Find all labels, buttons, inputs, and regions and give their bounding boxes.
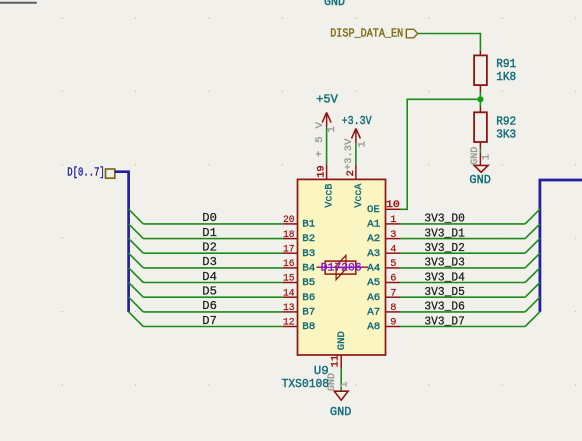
bus entry 3V3_D3 — [525, 253, 540, 268]
svg-text:12: 12 — [283, 317, 295, 329]
svg-text:1: 1 — [326, 126, 338, 132]
pin 13 B7 — [283, 311, 298, 313]
svg-text:B4: B4 — [302, 262, 315, 274]
bus entry D2 — [129, 239, 144, 254]
svg-text:11: 11 — [329, 355, 341, 367]
bus entry 3V3_D5 — [525, 283, 540, 298]
svg-text:B1: B1 — [302, 219, 315, 231]
svg-text:TXS0108: TXS0108 — [282, 377, 330, 391]
pin 12 B8 — [283, 326, 298, 328]
svg-text:D5: D5 — [202, 285, 217, 299]
op-amp U9 body (TXS0108 level shifter) — [298, 179, 386, 355]
bus D[0..7] (left) — [115, 172, 129, 312]
pin 6 A5 — [386, 282, 401, 284]
svg-text:14: 14 — [283, 287, 295, 299]
pin 20 B1 — [283, 223, 298, 225]
svg-text:D1: D1 — [202, 226, 217, 240]
bus entry 3V3_D1 — [525, 224, 540, 239]
resistor R92 — [474, 112, 487, 142]
wire DISP_DATA_EN to R91 — [418, 34, 481, 51]
svg-text:5: 5 — [390, 258, 396, 270]
wire 3V3_D6 — [400, 311, 525, 313]
svg-text:A6: A6 — [367, 292, 380, 304]
pin 17 B3 — [283, 252, 298, 254]
svg-text:B5: B5 — [302, 277, 315, 289]
bus entry D7 — [129, 312, 144, 327]
svg-text:VccA: VccA — [353, 183, 365, 208]
symbol graphic triangles — [335, 255, 346, 267]
svg-text:U9: U9 — [314, 364, 329, 378]
pin 1 A1 — [386, 223, 401, 225]
wire 3V3_D3 — [400, 267, 525, 269]
wire R91 to junction — [479, 92, 481, 107]
bus entry D3 — [129, 253, 144, 268]
svg-text:4: 4 — [390, 243, 396, 255]
svg-text:+5V: +5V — [314, 114, 326, 157]
svg-text:B3: B3 — [302, 248, 315, 260]
svg-text:9: 9 — [390, 317, 396, 329]
svg-text:16: 16 — [283, 258, 295, 270]
bus entry D0 — [129, 209, 144, 224]
wire 3V3_D4 — [400, 282, 525, 284]
svg-text:6: 6 — [390, 273, 396, 285]
svg-text:D2: D2 — [202, 241, 217, 255]
wire D1 — [143, 238, 283, 240]
svg-text:3V3_D1: 3V3_D1 — [424, 226, 465, 240]
svg-text:2: 2 — [345, 170, 357, 176]
resistor R91 — [474, 55, 487, 85]
pin 2 VccA — [355, 165, 357, 180]
svg-text:B7: B7 — [302, 306, 315, 318]
svg-text:3V3_D5: 3V3_D5 — [424, 285, 465, 299]
wire IC GND pin to ground — [340, 369, 342, 392]
svg-text:13: 13 — [283, 302, 295, 314]
svg-text:D3: D3 — [202, 255, 217, 269]
svg-text:B8: B8 — [302, 321, 315, 333]
ground symbol (IC bottom) — [334, 391, 348, 400]
wire 3V3_D0 — [400, 223, 525, 225]
svg-text:1K8: 1K8 — [496, 70, 516, 84]
svg-text:3V3_D6: 3V3_D6 — [424, 300, 465, 314]
wire D7 — [143, 326, 283, 328]
bus entry D5 — [129, 283, 144, 298]
bus entry D6 — [129, 297, 144, 312]
wire 3V3_D2 — [400, 252, 525, 254]
svg-text:1: 1 — [482, 154, 493, 160]
svg-text:A7: A7 — [367, 306, 380, 318]
sheet border fragment (top-left) — [0, 2, 37, 4]
junction — [477, 96, 483, 102]
wire +5V to VccB — [326, 127, 328, 165]
svg-text:A3: A3 — [367, 248, 380, 260]
svg-text:20: 20 — [283, 214, 295, 226]
svg-text:18: 18 — [283, 229, 295, 241]
svg-text:17: 17 — [283, 243, 295, 255]
svg-text:3V3_D4: 3V3_D4 — [424, 270, 465, 284]
svg-text:GND: GND — [330, 405, 352, 419]
svg-text:+3.3V: +3.3V — [344, 138, 355, 170]
svg-text:D17206: D17206 — [321, 263, 362, 275]
svg-text:OE: OE — [367, 204, 380, 216]
svg-text:GND: GND — [336, 331, 348, 350]
bus entry 3V3_D7 — [525, 312, 540, 327]
bus entry 3V3_D2 — [525, 239, 540, 254]
pin 9 A8 — [386, 326, 401, 328]
svg-text:D[0..7]: D[0..7] — [67, 167, 105, 180]
wire +3.3V to VccA — [355, 143, 357, 165]
bus entry 3V3_D4 — [525, 268, 540, 283]
wire 3V3_D1 — [400, 238, 525, 240]
svg-text:B2: B2 — [302, 233, 315, 245]
svg-text:D0: D0 — [202, 211, 217, 225]
pin 4 A3 — [386, 252, 401, 254]
svg-text:3: 3 — [390, 229, 396, 241]
wire D6 — [143, 311, 283, 313]
pin 15 B5 — [283, 282, 298, 284]
resistor R91 pins — [479, 51, 481, 92]
svg-text:VccB: VccB — [324, 184, 336, 208]
svg-text:1: 1 — [357, 141, 369, 147]
bus 3V3_D[0..7] (right) — [540, 180, 582, 312]
svg-text:7: 7 — [390, 287, 396, 299]
svg-text:A2: A2 — [367, 233, 380, 245]
pin 8 A7 — [386, 311, 401, 313]
svg-text:GND: GND — [324, 0, 345, 9]
svg-text:B6: B6 — [302, 292, 315, 304]
grid dots (decorative) — [62, 18, 577, 385]
symbol graphic leads (B4/A4 row) — [317, 266, 369, 268]
svg-text:19: 19 — [316, 165, 328, 177]
resistor R92 pins — [479, 107, 481, 150]
svg-text:3K3: 3K3 — [496, 128, 516, 142]
pin 7 A6 — [386, 296, 401, 298]
symbol graphic rectangle — [325, 261, 356, 274]
pin 10 OE — [386, 208, 401, 210]
bus entry 3V3_D0 — [525, 209, 540, 224]
pin 11 GND (IC bottom) — [340, 355, 342, 369]
wire D2 — [143, 252, 283, 254]
svg-text:D6: D6 — [202, 299, 217, 313]
wire D5 — [143, 296, 283, 298]
pin 19 VccB — [326, 165, 328, 180]
svg-text:D4: D4 — [202, 270, 217, 284]
pin 3 A2 — [386, 238, 401, 240]
svg-text:1: 1 — [390, 214, 396, 226]
svg-text:A5: A5 — [367, 277, 380, 289]
pin 16 B4 — [283, 267, 298, 269]
svg-text:15: 15 — [283, 273, 295, 285]
pin 18 B2 — [283, 238, 298, 240]
svg-text:+5V: +5V — [316, 93, 338, 107]
ground symbol below R92 — [479, 153, 481, 165]
svg-text:3V3_D3: 3V3_D3 — [424, 256, 465, 270]
svg-text:8: 8 — [390, 302, 396, 314]
wire D0 — [143, 223, 283, 225]
wire D4 — [143, 282, 283, 284]
svg-text:3V3_D2: 3V3_D2 — [424, 241, 465, 255]
svg-text:A1: A1 — [367, 219, 380, 231]
wire R92 to GND — [479, 149, 481, 153]
svg-text:A8: A8 — [367, 321, 380, 333]
svg-text:DISP_DATA_EN: DISP_DATA_EN — [330, 27, 403, 41]
svg-text:10: 10 — [386, 199, 400, 211]
svg-text:GND: GND — [470, 147, 481, 165]
wire junction to OE pin — [400, 99, 480, 209]
svg-text:R92: R92 — [496, 115, 516, 129]
svg-text:3V3_D7: 3V3_D7 — [424, 314, 465, 328]
svg-text:D7: D7 — [202, 314, 217, 328]
wire D3 — [143, 267, 283, 269]
svg-text:A4: A4 — [367, 262, 380, 274]
pin 14 B6 — [283, 296, 298, 298]
bus entry 3V3_D6 — [525, 297, 540, 312]
svg-text:GND: GND — [469, 173, 491, 187]
svg-text:+3.3V: +3.3V — [342, 114, 372, 128]
bus entry D4 — [129, 268, 144, 283]
wire 3V3_D7 — [400, 326, 525, 328]
svg-text:1: 1 — [340, 381, 351, 387]
wire 3V3_D5 — [400, 296, 525, 298]
pin 5 A4 — [386, 267, 401, 269]
svg-text:3V3_D0: 3V3_D0 — [424, 212, 465, 226]
bus entry D1 — [129, 224, 144, 239]
